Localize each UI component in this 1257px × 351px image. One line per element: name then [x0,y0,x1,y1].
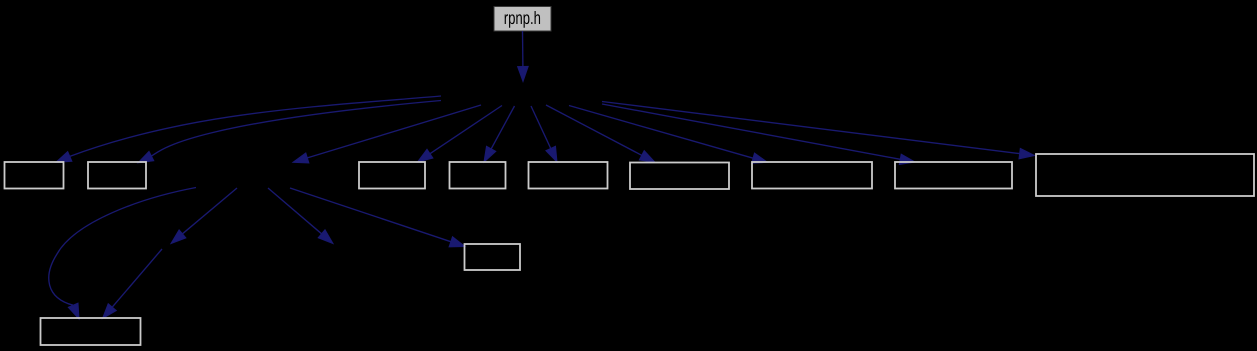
edge C to box K (long left curve) [49,188,196,320]
edge C to hidden node M [268,188,333,244]
box F [529,162,608,189]
edge hub to box D [418,106,503,163]
box G [630,163,729,190]
edge hub to box B (curved) [138,101,441,163]
edge hidden node L to box K [103,249,163,319]
edge hub to box A (curved) [56,96,441,162]
edge hub to box E [484,106,515,162]
box H [752,162,872,189]
edge hub to box F [531,106,557,162]
box E [450,162,506,189]
edge hub to hidden node C [293,105,481,163]
box B [88,162,146,189]
edge hub to box G [546,105,655,162]
edge C to box N [290,188,465,247]
box I [895,162,1012,189]
box A [5,162,64,189]
node rpnp.h (root) [494,7,551,32]
edge C to hidden node L [171,188,237,244]
edge hub to box H [569,106,768,164]
box N [465,244,521,270]
edge hub to box I [602,104,915,165]
box J (tall) [1036,154,1254,196]
box K [41,318,141,345]
box D [359,162,425,189]
edge rpnp.h to hidden hub node [518,31,529,82]
edge hub to box J [602,102,1035,159]
